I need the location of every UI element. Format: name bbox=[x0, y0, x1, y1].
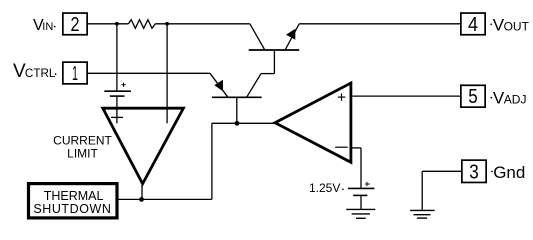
svg-text:2: 2 bbox=[71, 14, 80, 36]
svg-text:LIMIT: LIMIT bbox=[67, 147, 98, 161]
svg-text:1.25V: 1.25V bbox=[309, 181, 340, 195]
svg-text:1: 1 bbox=[72, 63, 78, 85]
svg-text:CURRENT: CURRENT bbox=[53, 133, 112, 147]
svg-text:SHUTDOWN: SHUTDOWN bbox=[33, 202, 111, 216]
svg-text:ADJ: ADJ bbox=[504, 92, 527, 106]
svg-text:5: 5 bbox=[468, 86, 478, 108]
svg-text:3: 3 bbox=[469, 162, 479, 184]
svg-text:Gnd: Gnd bbox=[493, 163, 525, 182]
svg-text:IN: IN bbox=[42, 21, 53, 33]
svg-text:OUT: OUT bbox=[504, 19, 530, 33]
svg-text:THERMAL: THERMAL bbox=[44, 189, 104, 203]
svg-text:4: 4 bbox=[468, 14, 478, 36]
svg-text:CTRL: CTRL bbox=[25, 67, 56, 80]
